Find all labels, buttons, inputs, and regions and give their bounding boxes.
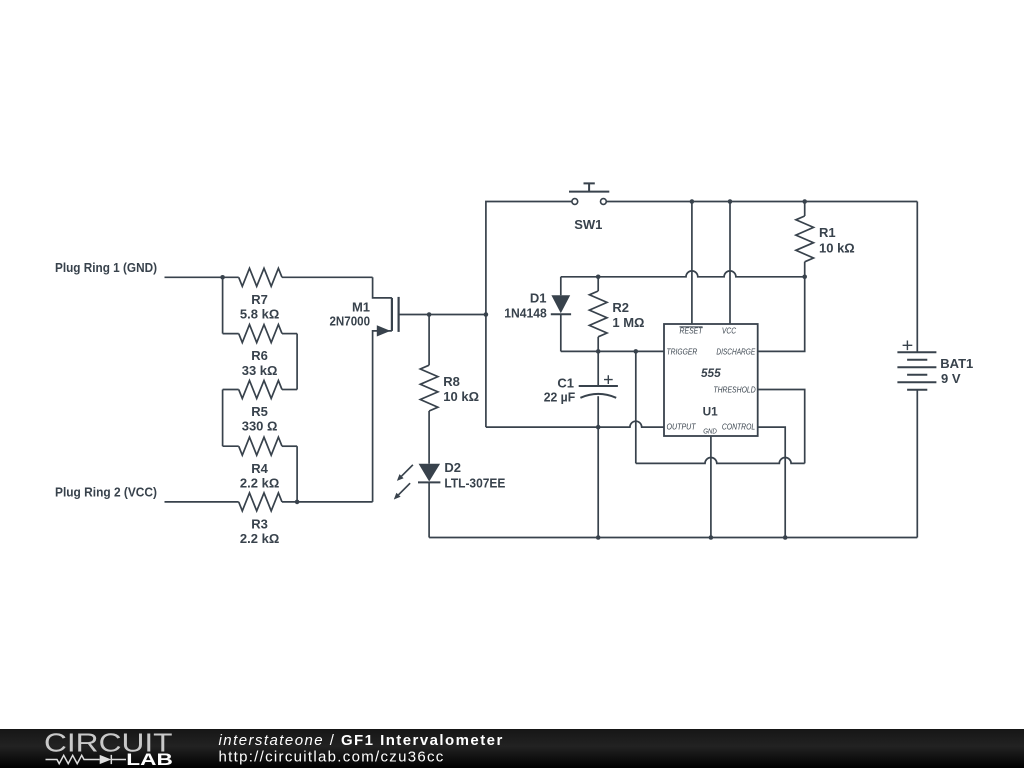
resistor R4 — [239, 437, 282, 455]
svg-text:10 kΩ: 10 kΩ — [819, 240, 855, 255]
svg-text:VCC: VCC — [722, 327, 736, 336]
node B junction (R4/R3 tap) — [295, 500, 300, 505]
switch SW1 actuator — [569, 183, 609, 191]
svg-text:R7: R7 — [251, 292, 268, 307]
switch SW1 right contact — [601, 199, 607, 205]
svg-text:555: 555 — [701, 366, 721, 380]
wire R4 right lead — [282, 445, 297, 447]
battery BAT1 plate short 1 — [907, 359, 927, 361]
pin label RESET overline — [680, 326, 703, 328]
svg-text:Plug Ring 2 (VCC): Plug Ring 2 (VCC) — [55, 484, 157, 499]
wire R5 left down to R4 — [222, 390, 224, 447]
node trigger/threshold tap — [634, 349, 639, 354]
svg-text:LAB: LAB — [126, 751, 173, 768]
battery BAT1 plate short 3 — [907, 389, 927, 391]
svg-text:U1: U1 — [703, 405, 719, 419]
battery BAT1 plate long 3 — [897, 381, 936, 383]
node C1 / output wire — [596, 425, 601, 430]
wire M1 source lead — [373, 331, 392, 502]
diode D1 triangle — [551, 295, 570, 313]
wire threshold riser to trigger — [635, 351, 637, 463]
svg-text:2N7000: 2N7000 — [330, 313, 371, 328]
wire output net (hop over threshold riser) — [486, 421, 664, 427]
node C1 top tap — [596, 349, 601, 354]
resistor R1 — [796, 216, 814, 262]
wire Plug Ring 2 to R3 — [165, 501, 239, 503]
svg-text:R6: R6 — [251, 348, 268, 363]
switch SW1 left contact — [572, 199, 578, 205]
wire R2 top lead — [597, 277, 599, 291]
svg-text:2.2 kΩ: 2.2 kΩ — [240, 531, 279, 546]
battery BAT1 plate long 2 — [897, 366, 936, 368]
svg-text:1 MΩ: 1 MΩ — [612, 315, 644, 330]
wire M1 gate to left rail — [399, 314, 486, 316]
wire battery positive lead — [916, 202, 918, 353]
node R2 top tap — [596, 275, 601, 280]
battery BAT1 plate long 1 — [897, 351, 936, 353]
svg-text:10 kΩ: 10 kΩ — [443, 389, 479, 404]
svg-text:2.2 kΩ: 2.2 kΩ — [240, 475, 279, 490]
wire R7 to M1 drain corner — [282, 276, 373, 278]
resistor R6 — [239, 325, 282, 343]
node gate/R8 junction — [427, 312, 432, 317]
resistor R8 — [420, 365, 438, 411]
svg-text:CONTROL: CONTROL — [722, 422, 755, 431]
svg-text:BAT1: BAT1 — [940, 356, 973, 371]
svg-text:SW1: SW1 — [574, 217, 602, 232]
wire C1 top lead — [597, 351, 599, 386]
op-amp/timer U1 555 body — [664, 324, 758, 436]
wire RESET pin to top rail — [691, 202, 693, 325]
logo resistor-diode squiggle — [46, 755, 100, 763]
wire trigger net — [561, 350, 664, 352]
svg-text:R3: R3 — [251, 517, 268, 532]
svg-text:C1: C1 — [557, 375, 574, 390]
capacitor C1 top plate — [579, 385, 618, 387]
node top rail / VCC — [728, 199, 733, 204]
diode D1 cathode bar — [551, 313, 571, 315]
svg-text:DISCHARGE: DISCHARGE — [716, 347, 755, 356]
wire M1 drain riser — [373, 277, 392, 298]
wire threshold return (hops over GND and CONTROL) — [636, 458, 805, 464]
wire bottom rail — [429, 537, 917, 539]
node R1 bottom / D1-R2 wire — [802, 275, 807, 280]
wire THRESHOLD to right riser — [758, 390, 805, 464]
wire R6 right down to R5 — [296, 334, 298, 390]
resistor R3 — [239, 493, 282, 511]
transistor M1 channel bar — [391, 298, 393, 331]
resistor R5 — [239, 381, 282, 399]
node CONTROL on bottom rail — [783, 535, 788, 540]
svg-text:LTL-307EE: LTL-307EE — [444, 475, 505, 490]
svg-text:M1: M1 — [352, 299, 370, 314]
wire node A to R7 — [223, 276, 239, 278]
svg-text:R2: R2 — [612, 300, 629, 315]
wire R3 to M1 source corner — [282, 501, 373, 503]
wire battery negative lead — [916, 390, 918, 538]
svg-text:R4: R4 — [251, 461, 268, 476]
svg-text:THRESHOLD: THRESHOLD — [713, 385, 755, 394]
LED D2 cathode bar — [418, 481, 440, 483]
svg-text:R8: R8 — [443, 374, 460, 389]
wire R4 right down to node B — [296, 446, 298, 502]
node top rail / RESET — [690, 199, 695, 204]
wire R6 left lead — [223, 333, 239, 335]
wire node A down to R6 — [222, 277, 224, 333]
LED D2 triangle — [419, 464, 441, 482]
svg-text:OUTPUT: OUTPUT — [667, 423, 697, 432]
wire C1 bottom lead — [597, 396, 599, 427]
wire D2 to bottom rail — [428, 482, 430, 537]
wire R8 to D2 — [428, 411, 430, 464]
wire left rail — [486, 202, 572, 428]
node GND on bottom rail — [709, 535, 714, 540]
capacitor C1 polarity + — [604, 375, 613, 384]
svg-text:22 µF: 22 µF — [544, 389, 576, 404]
resistor R7 — [239, 268, 282, 286]
svg-text:R1: R1 — [819, 225, 836, 240]
node A junction (R7 left / R6 branch) — [220, 275, 225, 280]
wire VCC pin to top rail — [729, 202, 731, 325]
wire R2 bottom lead — [597, 337, 599, 352]
wire gate junction down to R8 — [428, 315, 430, 366]
wire R5 right lead — [282, 389, 297, 391]
svg-text:5.8 kΩ: 5.8 kΩ — [240, 307, 279, 322]
wire C1 tap to bottom rail — [597, 427, 599, 537]
resistor R2 — [589, 291, 607, 337]
node top rail / R1 — [802, 199, 807, 204]
wire top rail SW1 to battery — [606, 201, 917, 203]
capacitor C1 curved plate — [580, 394, 616, 398]
wire GND pin to bottom rail — [710, 436, 712, 538]
svg-text:330 Ω: 330 Ω — [242, 419, 278, 434]
svg-text:TRIGGER: TRIGGER — [667, 347, 698, 356]
transistor M1 gate bar — [398, 297, 400, 332]
diode D1 anode lead — [560, 277, 562, 296]
svg-text:GND: GND — [703, 427, 717, 436]
wire R1 to DISCHARGE corner — [758, 262, 805, 352]
svg-text:33 kΩ: 33 kΩ — [242, 363, 278, 378]
wire D1 cathode to trigger wire — [560, 314, 562, 351]
transistor M1 source arrow — [377, 325, 391, 336]
svg-text:D1: D1 — [530, 291, 547, 306]
battery BAT1 polarity + — [903, 341, 913, 351]
svg-text:1N4148: 1N4148 — [504, 306, 547, 321]
wire top rail to R1 — [804, 202, 806, 217]
svg-text:http://circuitlab.com/czu36cc: http://circuitlab.com/czu36cc — [219, 749, 445, 766]
node C1 net on bottom rail — [596, 535, 601, 540]
footer bar — [0, 729, 1024, 768]
node gate wire on left rail — [484, 312, 489, 317]
svg-text:Plug Ring 1 (GND): Plug Ring 1 (GND) — [55, 260, 157, 275]
wire R6 right lead — [282, 333, 297, 335]
svg-text:9 V: 9 V — [941, 371, 961, 386]
wire CONTROL to bottom rail — [758, 427, 786, 537]
wire Plug Ring 1 to node A — [165, 276, 223, 278]
svg-text:interstateone / GF1 Intervalom: interstateone / GF1 Intervalometer — [219, 732, 504, 749]
battery BAT1 plate short 2 — [907, 374, 927, 376]
LED D2 light arrow 1 — [402, 465, 413, 476]
svg-text:RESET: RESET — [680, 327, 704, 336]
wire D1-R2 top net (hops over RESET and VCC) — [561, 271, 805, 277]
svg-text:R5: R5 — [251, 404, 268, 419]
svg-text:D2: D2 — [444, 460, 461, 475]
wire R5 left lead — [223, 389, 239, 391]
wire R4 left lead — [223, 445, 239, 447]
LED D2 light arrow 2 — [399, 483, 411, 495]
